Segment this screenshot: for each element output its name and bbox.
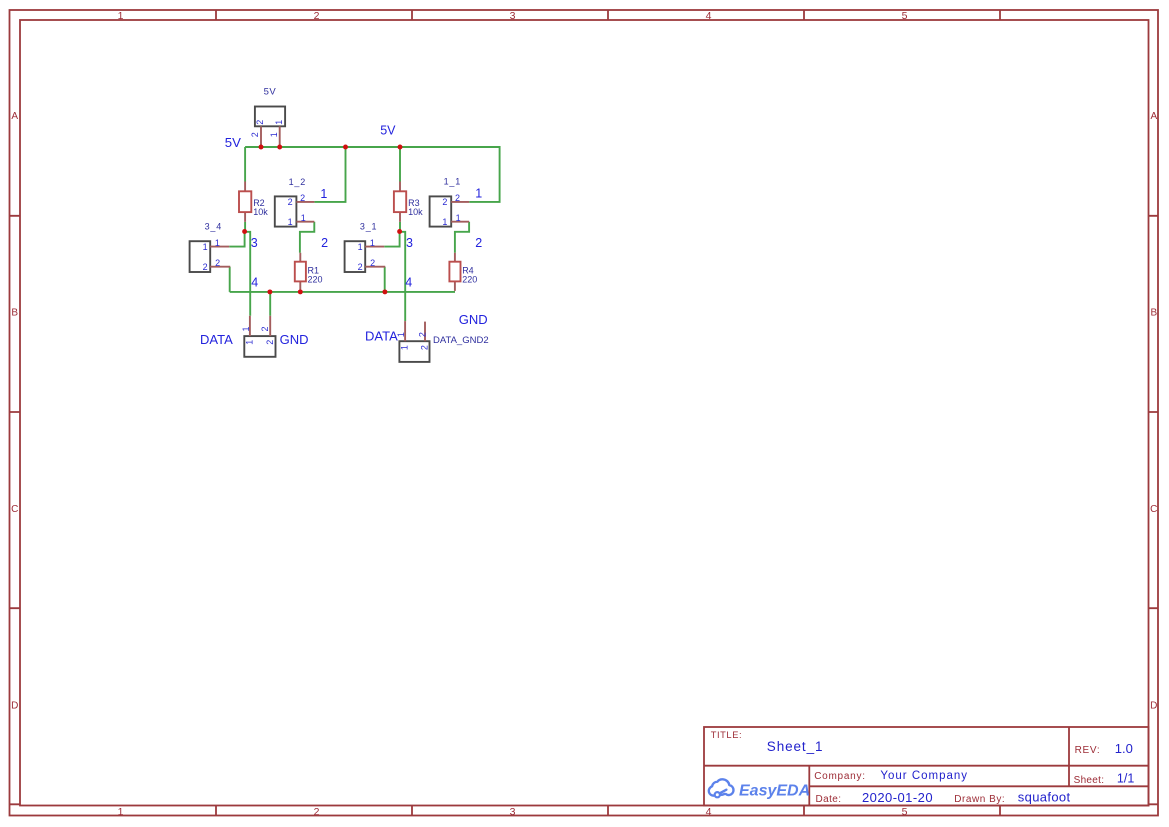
svg-text:2: 2 bbox=[255, 120, 265, 125]
pin 1 stub bbox=[210, 246, 229, 248]
svg-text:1: 1 bbox=[215, 238, 220, 248]
junction node 3 right bbox=[397, 229, 402, 234]
svg-text:squafoot: squafoot bbox=[1018, 790, 1071, 805]
svg-text:10k: 10k bbox=[408, 207, 423, 217]
svg-text:C: C bbox=[11, 504, 18, 515]
EasyEDA logo bbox=[709, 779, 734, 797]
svg-text:5: 5 bbox=[902, 806, 908, 818]
title block outline bbox=[704, 727, 1149, 806]
title block divider vertical right column bbox=[1068, 727, 1070, 786]
svg-text:1: 1 bbox=[203, 242, 208, 252]
svg-text:2: 2 bbox=[358, 262, 363, 272]
pin 1 stub bbox=[249, 316, 251, 336]
svg-text:REV:: REV: bbox=[1075, 745, 1101, 756]
svg-text:2: 2 bbox=[314, 10, 320, 22]
wire node to DATA_GND2 pin1 (net 3 right) bbox=[400, 232, 406, 321]
junction 5V pin2 bbox=[259, 145, 264, 150]
svg-text:1/1: 1/1 bbox=[1117, 772, 1134, 786]
wire 3_4 pin1 to node bbox=[229, 232, 244, 247]
svg-text:1: 1 bbox=[456, 213, 461, 223]
svg-text:1: 1 bbox=[358, 242, 363, 252]
svg-text:3: 3 bbox=[510, 10, 516, 22]
svg-text:Sheet_1: Sheet_1 bbox=[767, 739, 824, 754]
svg-text:5V: 5V bbox=[225, 135, 241, 150]
svg-text:2: 2 bbox=[370, 258, 375, 268]
resistor R3 bbox=[394, 182, 423, 222]
svg-text:B: B bbox=[1150, 307, 1157, 318]
pin 1 stub bbox=[404, 321, 406, 341]
pin 1 stub bbox=[451, 221, 469, 223]
pin 2 stub bbox=[365, 266, 385, 268]
svg-text:D: D bbox=[11, 700, 18, 711]
svg-text:1: 1 bbox=[400, 345, 410, 350]
wire 1_2 pin1 to R1 bbox=[300, 222, 314, 253]
wire GND bottom bus bbox=[230, 291, 455, 293]
svg-text:4: 4 bbox=[706, 806, 712, 818]
svg-text:Your Company: Your Company bbox=[880, 770, 968, 782]
svg-text:1: 1 bbox=[301, 213, 306, 223]
junction 1_2 pin2 riser bbox=[343, 145, 348, 150]
svg-text:3_1: 3_1 bbox=[360, 222, 377, 232]
svg-text:2: 2 bbox=[419, 345, 429, 350]
svg-text:2: 2 bbox=[321, 236, 328, 250]
resistor R1 bbox=[295, 253, 323, 291]
wire 3_4 pin2 down to GND bus bbox=[229, 267, 231, 292]
svg-text:2: 2 bbox=[475, 236, 482, 250]
svg-text:220: 220 bbox=[462, 274, 477, 284]
connector DATA_GND2 (bottom right) bbox=[396, 321, 489, 362]
wire 5V drop to R3 bbox=[399, 147, 401, 182]
column ticks bottom bbox=[216, 806, 1000, 816]
svg-text:1: 1 bbox=[288, 217, 293, 227]
svg-text:GND: GND bbox=[280, 332, 309, 347]
svg-text:5V: 5V bbox=[380, 124, 396, 138]
svg-text:1: 1 bbox=[370, 238, 375, 248]
svg-text:DATA_GND2: DATA_GND2 bbox=[433, 335, 489, 346]
svg-text:1: 1 bbox=[118, 10, 124, 22]
svg-text:1_2: 1_2 bbox=[289, 177, 306, 187]
svg-text:DATA: DATA bbox=[200, 332, 233, 347]
svg-text:A: A bbox=[11, 111, 18, 122]
connector DATA/GND (bottom left) bbox=[241, 316, 275, 357]
svg-text:4: 4 bbox=[706, 10, 712, 22]
junction node 3 left bbox=[242, 229, 247, 234]
pin 2 stub bbox=[424, 322, 426, 342]
wire R2 bottom to node bbox=[244, 222, 246, 232]
svg-text:4: 4 bbox=[251, 275, 258, 289]
svg-text:220: 220 bbox=[308, 274, 323, 284]
pin 2 stub bbox=[296, 201, 314, 203]
svg-text:1: 1 bbox=[442, 217, 447, 227]
svg-text:B: B bbox=[11, 307, 18, 318]
svg-text:1.0: 1.0 bbox=[1115, 741, 1133, 756]
svg-text:DATA: DATA bbox=[365, 328, 398, 343]
wire 3_1 pin1 to node bbox=[384, 232, 399, 247]
svg-text:EasyEDA: EasyEDA bbox=[739, 783, 810, 800]
svg-text:10k: 10k bbox=[253, 207, 268, 217]
svg-text:4: 4 bbox=[405, 275, 412, 289]
wire 3_1 pin2 down to GND bus bbox=[384, 267, 386, 292]
junction GND pin2 bbox=[267, 289, 272, 294]
junction R3 top bbox=[398, 145, 403, 150]
connector 1_1 bbox=[430, 176, 470, 227]
svg-text:2: 2 bbox=[442, 197, 447, 207]
svg-text:2: 2 bbox=[417, 332, 427, 337]
svg-text:3_4: 3_4 bbox=[205, 222, 222, 232]
svg-text:2: 2 bbox=[250, 132, 260, 137]
svg-text:Drawn By:: Drawn By: bbox=[954, 794, 1005, 805]
svg-text:2: 2 bbox=[265, 340, 275, 345]
net labels bbox=[200, 124, 488, 347]
svg-text:1: 1 bbox=[274, 120, 284, 125]
title block divider date row bbox=[809, 785, 1148, 787]
wire 1_2 pin2 to 5V bus bbox=[314, 147, 345, 202]
svg-text:1: 1 bbox=[320, 187, 327, 201]
wire node to DATA pin1 (net 3 left) bbox=[245, 232, 251, 316]
svg-text:2: 2 bbox=[288, 197, 293, 207]
wire 5V drop to R2 bbox=[244, 147, 246, 182]
svg-text:1: 1 bbox=[245, 340, 255, 345]
wire 5V top bus bbox=[245, 147, 500, 202]
svg-text:2: 2 bbox=[314, 806, 320, 818]
svg-text:D: D bbox=[1150, 700, 1157, 711]
svg-text:1: 1 bbox=[118, 806, 124, 818]
svg-text:Company:: Company: bbox=[814, 771, 866, 782]
svg-text:2: 2 bbox=[300, 193, 305, 203]
row ticks right bbox=[1149, 216, 1159, 805]
resistor R2 bbox=[239, 182, 268, 222]
connector 1_2 bbox=[275, 177, 315, 227]
svg-text:1: 1 bbox=[269, 132, 279, 137]
svg-text:2: 2 bbox=[260, 326, 270, 331]
pin 2 stub bbox=[210, 266, 230, 268]
svg-text:GND: GND bbox=[459, 312, 488, 327]
title block divider under title row bbox=[704, 765, 1149, 767]
junction dots bbox=[242, 145, 402, 295]
svg-text:2020-01-20: 2020-01-20 bbox=[862, 790, 933, 805]
pin 2 stub bbox=[269, 316, 271, 336]
pin 1 stub bbox=[296, 221, 314, 223]
svg-text:Sheet:: Sheet: bbox=[1074, 775, 1105, 786]
column ticks top bbox=[216, 10, 1000, 20]
pin 1 stub bbox=[365, 246, 384, 248]
svg-text:2: 2 bbox=[455, 193, 460, 203]
wire 1_1 pin1 to R4 bbox=[455, 222, 469, 253]
svg-text:5: 5 bbox=[902, 10, 908, 22]
resistor R4 bbox=[449, 253, 477, 291]
wire GND pin2 drop bbox=[269, 292, 271, 316]
connector 3_1 bbox=[345, 222, 386, 272]
svg-text:TITLE:: TITLE: bbox=[711, 730, 743, 740]
svg-text:3: 3 bbox=[251, 236, 258, 250]
svg-text:2: 2 bbox=[203, 262, 208, 272]
svg-text:3: 3 bbox=[406, 236, 413, 250]
svg-text:3: 3 bbox=[510, 806, 516, 818]
svg-text:A: A bbox=[1150, 111, 1157, 122]
pin 1 stub bbox=[279, 126, 281, 147]
svg-text:Date:: Date: bbox=[816, 794, 842, 805]
pin 2 stub bbox=[451, 201, 469, 203]
svg-text:5V: 5V bbox=[264, 87, 277, 98]
wire R3 bottom to node bbox=[399, 222, 401, 232]
svg-text:1: 1 bbox=[241, 326, 251, 331]
junction R1 bottom bbox=[298, 289, 303, 294]
connector 5V (top header) bbox=[250, 87, 285, 147]
connector 3_4 bbox=[190, 222, 231, 272]
pin 2 stub bbox=[260, 126, 262, 147]
svg-text:1: 1 bbox=[475, 187, 482, 201]
junction 5V pin1 bbox=[277, 145, 282, 150]
svg-text:1_1: 1_1 bbox=[444, 176, 461, 186]
junction 3_1 pin2 bbox=[382, 289, 387, 294]
svg-text:C: C bbox=[1150, 504, 1157, 515]
row ticks left bbox=[10, 216, 21, 805]
svg-text:2: 2 bbox=[215, 258, 220, 268]
title block divider logo column bbox=[808, 766, 810, 806]
